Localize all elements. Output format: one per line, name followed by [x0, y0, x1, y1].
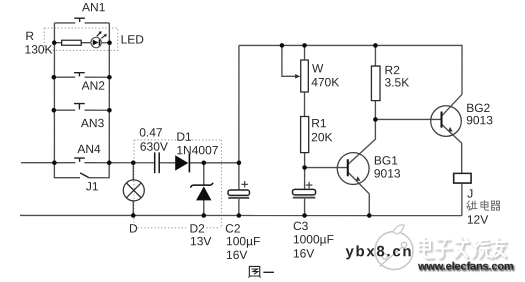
svg-text:470K: 470K — [311, 75, 339, 89]
svg-text:C3: C3 — [293, 219, 309, 233]
svg-text:AN4: AN4 — [77, 142, 101, 156]
svg-text:16V: 16V — [293, 247, 314, 261]
svg-text:R: R — [25, 29, 34, 43]
svg-text:100µF: 100µF — [226, 234, 260, 248]
svg-text:9013: 9013 — [466, 113, 493, 127]
svg-text:16V: 16V — [226, 248, 247, 262]
svg-text:LED: LED — [121, 32, 145, 46]
svg-text:AN3: AN3 — [81, 116, 105, 130]
svg-text:J: J — [467, 187, 473, 201]
svg-text:AN2: AN2 — [82, 79, 106, 93]
svg-text:9013: 9013 — [374, 167, 401, 181]
svg-text:13V: 13V — [190, 234, 211, 248]
svg-text:D1: D1 — [176, 130, 192, 144]
svg-text:www.elecfans.com: www.elecfans.com — [417, 261, 514, 273]
svg-text:20K: 20K — [311, 130, 332, 144]
svg-text:D: D — [129, 221, 138, 235]
svg-text:J1: J1 — [86, 179, 99, 193]
svg-text:BG1: BG1 — [374, 154, 398, 168]
svg-text:1N4007: 1N4007 — [176, 143, 218, 157]
svg-text:12V: 12V — [467, 213, 488, 227]
svg-text:W: W — [312, 61, 324, 75]
svg-text:630V: 630V — [140, 140, 168, 154]
svg-text:R1: R1 — [311, 116, 327, 130]
svg-text:AN1: AN1 — [82, 0, 106, 14]
svg-text:ybx8.cn: ybx8.cn — [345, 243, 413, 260]
svg-text:3.5K: 3.5K — [385, 76, 410, 90]
svg-text:130K: 130K — [25, 43, 53, 57]
svg-text:1000µF: 1000µF — [293, 232, 334, 246]
svg-text:0.47: 0.47 — [139, 125, 163, 139]
